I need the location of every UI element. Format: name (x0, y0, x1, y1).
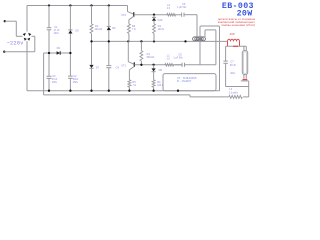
svg-text:C4: C4 (116, 65, 120, 69)
svg-text:D7: D7 (96, 66, 100, 70)
svg-text:D - 1N4007: D - 1N4007 (177, 79, 192, 83)
svg-text:500 kΩ: 500 kΩ (147, 56, 155, 59)
svg-text:400: 400 (230, 32, 235, 36)
svg-text:D9: D9 (57, 46, 61, 50)
svg-text:D6: D6 (112, 26, 116, 30)
svg-text:VT1: VT1 (121, 63, 126, 67)
svg-text:400 kΩ: 400 kΩ (95, 28, 103, 31)
svg-text:7 Ω: 7 Ω (132, 28, 136, 31)
svg-text:100 Ω: 100 Ω (158, 28, 165, 31)
svg-text:VT2: VT2 (121, 13, 126, 17)
svg-text:20W: 20W (237, 9, 253, 18)
svg-text:D8: D8 (159, 68, 163, 72)
svg-text:лампы-экономки (20 вт): лампы-экономки (20 вт) (221, 23, 255, 27)
svg-text:250v: 250v (73, 81, 79, 84)
svg-text:D5: D5 (75, 29, 79, 33)
svg-text:7 Ω: 7 Ω (132, 84, 136, 87)
svg-text:~220v: ~220v (7, 40, 24, 46)
svg-text:D10: D10 (158, 18, 163, 22)
svg-text:400v: 400v (230, 72, 236, 75)
svg-text:1 µF 50v: 1 µF 50v (173, 57, 183, 60)
svg-text:400v: 400v (54, 32, 60, 35)
svg-text:1 µF 50v: 1 µF 50v (177, 6, 187, 9)
svg-text:68 nF: 68 nF (230, 64, 237, 67)
svg-text:C7: C7 (230, 60, 234, 64)
svg-text:3.3 мкГн: 3.3 мкГн (229, 91, 239, 94)
svg-text:400v: 400v (52, 81, 58, 84)
